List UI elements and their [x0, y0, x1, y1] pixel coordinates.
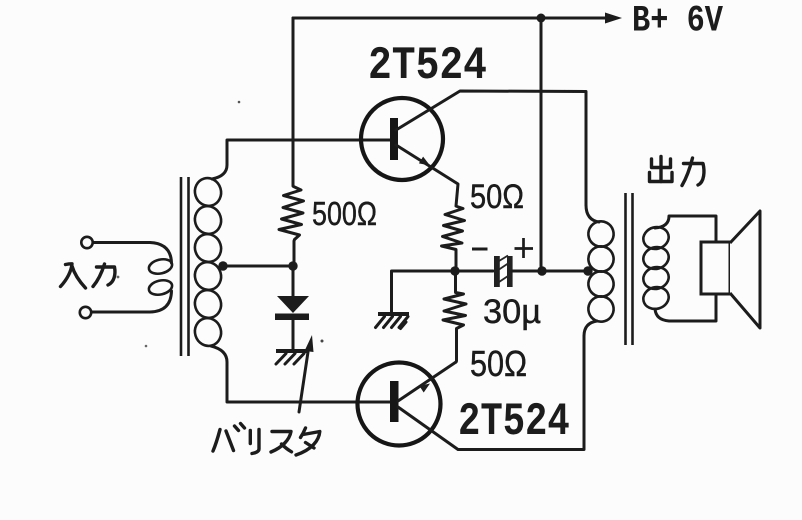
svg-text:500Ω: 500Ω [312, 195, 377, 232]
wire input top lead [93, 243, 172, 264]
wire B+ to T2 center tap [542, 270, 588, 273]
wire T1 secondary bottom to Q2 base [211, 346, 390, 402]
svg-text:B+ 6V: B+ 6V [632, 1, 724, 43]
varistor D1 [292, 266, 295, 297]
wire Q1 collector [396, 91, 586, 205]
wire emitter junction left to ground [392, 271, 456, 312]
node B+ junction [537, 14, 546, 23]
label barisuta (katakana) [213, 424, 320, 456]
node capacitor plus junction [537, 266, 546, 275]
label shutsuryoku (output) [650, 157, 704, 186]
speaker LS1 horn [730, 211, 760, 328]
transformer T1 core [181, 177, 189, 356]
transformer T2 secondary coil [641, 224, 671, 311]
label nyuuryoku (input) [61, 264, 115, 288]
wire Q2 collector [398, 336, 584, 450]
node T2 center tap [583, 266, 592, 275]
speck [117, 276, 120, 279]
wire T2 secondary to speaker loop [655, 216, 716, 321]
varistor pointer arrow [299, 352, 308, 412]
wire B+ top rail [293, 17, 605, 20]
ground under varistor [276, 349, 307, 353]
speck [321, 340, 324, 343]
wire Q1 emitter [396, 145, 458, 206]
wire B+ feed down to transformer tap [540, 18, 543, 271]
svg-text:2T524: 2T524 [458, 396, 570, 449]
ground near capacitor [378, 312, 409, 316]
transformer T2 primary coil [585, 218, 617, 325]
resistor R3 50ohm (bottom emitter) [443, 271, 466, 362]
transformer T2 core [626, 193, 633, 345]
resistor R1 500ohm [279, 187, 304, 267]
terminal input top [81, 237, 92, 248]
node emitter junction [450, 266, 459, 275]
wire T2 primary bottom curve [584, 321, 597, 336]
speck [145, 345, 148, 348]
transformer T1 secondary coil [191, 175, 224, 349]
svg-text:2T524: 2T524 [368, 39, 487, 91]
wire T2 primary top curve [586, 205, 599, 222]
terminal input bottom [80, 307, 91, 318]
wire emitter junction to capacitor [455, 270, 493, 273]
svg-text:30µ: 30µ [483, 293, 541, 331]
B+ arrowhead [605, 13, 622, 24]
wire input bottom lead [92, 291, 172, 312]
node bias junction [288, 261, 297, 270]
label plus [515, 238, 534, 258]
wire center tap to bias junction [223, 265, 293, 268]
speck [238, 101, 241, 104]
speaker LS1 driver [701, 242, 730, 294]
wire capacitor to B+ node [512, 270, 541, 273]
wire left branch from rail down to R1 [292, 18, 295, 186]
transformer T1 primary coil [147, 257, 173, 297]
label minus [472, 248, 488, 251]
wire Q2 emitter [398, 362, 456, 401]
node center tap T1 [218, 261, 227, 270]
resistor R2 50ohm (top emitter) [442, 207, 465, 272]
svg-text:50Ω: 50Ω [470, 343, 527, 384]
transistor Q2 [358, 363, 441, 446]
svg-text:50Ω: 50Ω [470, 178, 524, 216]
wire T1 secondary top to Q1 base [212, 140, 390, 179]
transistor Q1 [361, 98, 443, 180]
capacitor C1 30uF [494, 256, 500, 287]
